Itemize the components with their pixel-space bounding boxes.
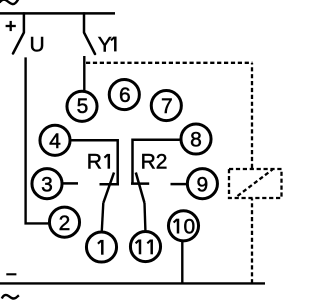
svg-text:2: 2 [59, 212, 71, 235]
relay box diagonal (dashed) [238, 170, 273, 197]
terminal Y1 (socket clip) [84, 13, 95, 54]
pin 8 [181, 124, 211, 154]
svg-text:9: 9 [197, 173, 209, 196]
pin 5 [67, 91, 97, 121]
wire U to pin 2 [26, 57, 49, 223]
terminal U (socket clip) [13, 13, 24, 53]
svg-text:0: 0 [183, 215, 195, 238]
pin 9 [187, 169, 217, 199]
plus polarity label [6, 25, 16, 27]
AC symbol top-left (~) [0, 0, 18, 4]
AC symbol bottom-left (~) [2, 295, 19, 299]
R2 movable arm [136, 173, 145, 204]
svg-text:R: R [87, 151, 102, 174]
svg-text:8: 8 [190, 129, 202, 152]
svg-text:3: 3 [41, 173, 53, 196]
pin 6 [109, 80, 139, 110]
svg-text:R2: R2 [141, 151, 168, 174]
svg-text:5: 5 [77, 95, 89, 118]
wire Y1 to pin 5 [83, 56, 85, 91]
svg-text:6: 6 [119, 84, 131, 107]
external relay box (dashed) [229, 169, 282, 198]
R1 fixed contact foot [100, 183, 120, 186]
svg-text:7: 7 [161, 95, 173, 118]
wire arm to pin 11 [143, 203, 146, 230]
dashed wire vertical lower [251, 199, 253, 284]
pin 4 [40, 125, 70, 155]
bottom supply bus wire [0, 282, 265, 284]
dashed wire vertical upper [251, 63, 253, 168]
pin 7 [151, 91, 181, 121]
pin 3 stub [62, 182, 78, 185]
wire arm to pin 1 [102, 203, 104, 231]
wire pin8 to R2 fixed contact [133, 140, 180, 184]
svg-text:4: 4 [49, 130, 61, 153]
pin 9 stub [171, 183, 187, 186]
pin 10 [168, 211, 198, 241]
pin 1 [86, 232, 116, 262]
R1 movable arm [103, 173, 114, 204]
R2 fixed contact foot [131, 182, 149, 185]
pin 2 [49, 207, 79, 237]
svg-text:Y: Y [98, 33, 112, 56]
wire pin4 to R1 fixed contact [71, 140, 118, 184]
top supply bus wire [0, 12, 115, 15]
wire pin 10 to bottom bus [181, 242, 183, 284]
pin 3 [32, 169, 62, 199]
svg-text:U: U [30, 33, 45, 56]
pin 11 [130, 232, 160, 262]
minus polarity label [6, 273, 16, 275]
dashed wire Y1 horizontal [86, 62, 253, 64]
